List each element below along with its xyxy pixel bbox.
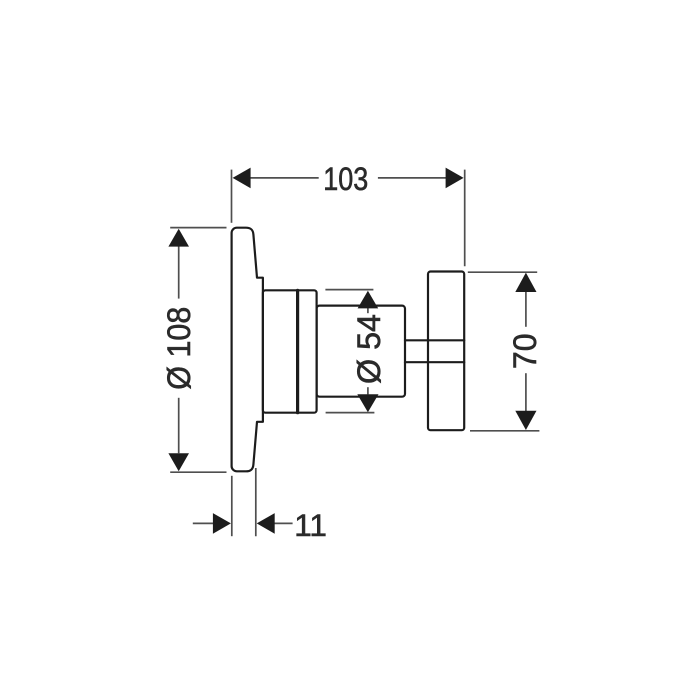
svg-text:Ø 108: Ø 108 [161, 307, 197, 390]
svg-text:70: 70 [507, 334, 543, 370]
svg-text:11: 11 [294, 507, 327, 543]
svg-text:103: 103 [323, 161, 368, 197]
svg-text:Ø 54: Ø 54 [351, 314, 387, 384]
